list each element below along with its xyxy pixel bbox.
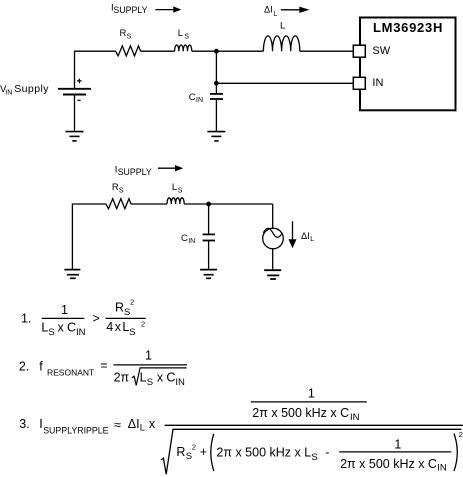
svg-text:R: R <box>176 445 185 459</box>
svg-text:IN: IN <box>372 77 383 89</box>
svg-text:C: C <box>166 371 175 385</box>
svg-text:2π x 500 kHz x C: 2π x 500 kHz x C <box>252 406 349 420</box>
svg-text:SUPPLY: SUPPLY <box>118 167 152 177</box>
svg-text:I: I <box>39 417 42 431</box>
svg-text:ΔI: ΔI <box>264 4 273 14</box>
svg-text:2: 2 <box>130 298 134 307</box>
svg-text:L: L <box>273 11 277 18</box>
svg-text:+: + <box>200 445 207 459</box>
svg-text:L: L <box>310 236 314 243</box>
svg-text:ΔI: ΔI <box>128 417 140 431</box>
svg-text:L: L <box>172 182 177 193</box>
svg-text:4: 4 <box>106 320 113 334</box>
svg-text:R: R <box>115 301 124 315</box>
svg-text:IN: IN <box>188 238 195 245</box>
svg-text:f: f <box>39 359 43 373</box>
svg-text:IN: IN <box>175 377 185 388</box>
svg-text:IN: IN <box>437 463 447 474</box>
svg-text:-: - <box>325 446 329 460</box>
svg-text:2: 2 <box>141 320 145 329</box>
svg-text:Supply: Supply <box>14 83 49 95</box>
svg-text:C: C <box>67 321 76 335</box>
svg-text:x: x <box>157 371 164 385</box>
svg-text:=: = <box>100 359 107 373</box>
svg-text:2: 2 <box>192 443 196 452</box>
svg-text:x: x <box>58 321 65 335</box>
svg-text:S: S <box>129 327 135 338</box>
svg-text:IN: IN <box>350 412 360 423</box>
svg-text:S: S <box>147 377 153 388</box>
svg-text:1: 1 <box>308 387 315 401</box>
svg-text:S: S <box>124 307 130 318</box>
svg-text:S: S <box>119 187 124 194</box>
svg-text:R: R <box>120 28 127 39</box>
svg-text:x: x <box>149 417 156 431</box>
svg-text:L: L <box>41 321 48 335</box>
svg-text:S: S <box>184 33 189 40</box>
svg-text:IN: IN <box>5 89 12 96</box>
svg-text:C: C <box>189 92 196 103</box>
svg-text:S: S <box>186 451 192 462</box>
svg-text:SW: SW <box>372 45 390 57</box>
svg-text:1: 1 <box>394 438 401 452</box>
svg-text:SUPPLYRIPPLE: SUPPLYRIPPLE <box>43 425 108 435</box>
svg-text:S: S <box>311 452 317 463</box>
svg-text:x: x <box>115 320 122 334</box>
svg-text:2π x 500 kHz x C: 2π x 500 kHz x C <box>340 457 437 471</box>
svg-text:1: 1 <box>145 348 152 362</box>
svg-text:S: S <box>48 327 54 338</box>
svg-text:L: L <box>178 28 183 39</box>
svg-text:SUPPLY: SUPPLY <box>113 5 147 15</box>
svg-text:≈: ≈ <box>114 418 121 432</box>
svg-text:1: 1 <box>61 303 68 317</box>
svg-text:2π: 2π <box>114 371 130 385</box>
svg-text:2π x 500 kHz x L: 2π x 500 kHz x L <box>216 446 311 460</box>
svg-text:RESONANT: RESONANT <box>47 367 94 377</box>
svg-text:2.: 2. <box>19 359 29 373</box>
svg-text:>: > <box>93 312 100 326</box>
svg-text:1.: 1. <box>21 312 31 326</box>
svg-text:2: 2 <box>459 430 463 439</box>
svg-text:IN: IN <box>76 327 86 338</box>
svg-text:L: L <box>140 423 145 434</box>
svg-text:LM36923H: LM36923H <box>373 20 443 35</box>
svg-text:S: S <box>127 33 132 40</box>
svg-text:L: L <box>140 371 147 385</box>
svg-text:L: L <box>280 21 285 32</box>
svg-text:3.: 3. <box>19 417 29 431</box>
svg-text:ΔI: ΔI <box>301 231 310 241</box>
svg-text:R: R <box>112 182 119 193</box>
svg-text:IN: IN <box>196 97 203 104</box>
svg-text:C: C <box>181 233 188 244</box>
svg-text:S: S <box>178 187 183 194</box>
